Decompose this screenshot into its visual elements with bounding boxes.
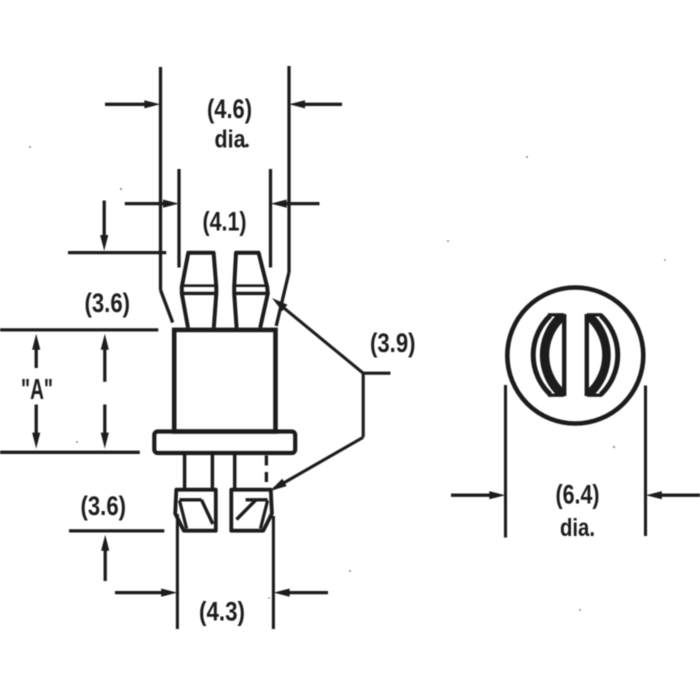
svg-text:(3.6): (3.6)	[85, 288, 131, 318]
bottom barb right chamfer diagonal	[237, 500, 257, 520]
svg-text:(4.1): (4.1)	[203, 207, 247, 237]
extension line right (6.4)	[644, 386, 647, 537]
bottom barb left chamfer diagonal	[202, 500, 213, 524]
top prong right outline	[234, 253, 268, 328]
bottom stem left outer edge	[183, 453, 187, 490]
svg-text:dia: dia	[215, 126, 247, 154]
bottom stem right inner edge	[233, 453, 237, 490]
top view right inner arc	[592, 319, 606, 391]
top view right slot wall	[585, 314, 589, 396]
scan noise speckles	[245, 144, 249, 148]
extension line right (4.1)	[269, 169, 272, 268]
reference line body top extended left	[0, 328, 158, 331]
extension line left (4.1)	[177, 169, 180, 268]
down arrow above flange-bottom line (3.6 bottom)	[103, 405, 106, 437]
top view right crescent top edge	[587, 313, 602, 316]
extension line left (4.6 dia hole)	[159, 67, 162, 290]
reference line bottom of lower barb (3.6 bottom)	[69, 529, 164, 532]
leader 3.9 upper diagonal	[277, 302, 363, 373]
dimension arrow 4.1 left	[125, 202, 168, 205]
reference line top of upper barb (3.6)	[68, 251, 166, 254]
extension line left (6.4)	[504, 385, 507, 538]
bottom barb left face edge	[180, 501, 187, 529]
leader 3.9 lower diagonal	[274, 437, 363, 488]
extension line right (4.3)	[272, 516, 275, 629]
svg-text:"A": "A"	[21, 374, 53, 406]
bottom stem right hidden edge dashed	[265, 456, 268, 490]
svg-text:(3.9): (3.9)	[370, 328, 416, 358]
bottom barb right face edge	[261, 501, 268, 529]
reference line flange bottom extended left	[0, 451, 140, 454]
top view left outer arc	[533, 316, 550, 395]
leader 3.9 horizontal bar	[363, 372, 390, 375]
top prong right barb line lower	[234, 292, 268, 295]
svg-text:dia.: dia.	[560, 514, 595, 542]
bottom stem left inner edge	[211, 453, 215, 490]
extension line left angled lead-in	[161, 290, 173, 323]
top view left inner arc	[545, 319, 559, 391]
top prong right barb line upper	[234, 284, 267, 287]
down arrow above (3.6) top	[103, 201, 106, 240]
svg-text:(4.3): (4.3)	[199, 597, 245, 627]
dimension arrow 6.4 left	[451, 494, 494, 497]
dimension A up arrow	[35, 345, 38, 368]
dimension A down arrow	[35, 405, 38, 437]
top view left crescent bottom edge	[548, 394, 564, 397]
svg-text:(4.6): (4.6)	[207, 94, 252, 124]
dimension arrow 4.1 right	[282, 202, 320, 205]
top view left slot wall	[562, 314, 566, 396]
dimension arrow 4.3 right	[285, 591, 328, 594]
svg-text:(3.6): (3.6)	[81, 491, 127, 521]
extension line left (4.3)	[176, 514, 179, 629]
dimension arrow 6.4 right	[657, 494, 700, 497]
dimension arrow 4.6 right	[300, 103, 342, 106]
top view right crescent bottom edge	[587, 394, 602, 397]
top prong left outline	[182, 253, 217, 328]
top prong left barb line lower	[182, 292, 217, 295]
top prong left barb line upper	[182, 284, 217, 287]
bottom barb right ledge line	[246, 498, 268, 501]
bottom barb left outline	[175, 490, 216, 531]
body cylinder side view	[174, 330, 275, 432]
extension line right angled lead-in	[276, 273, 289, 326]
top view left crescent top edge	[548, 313, 564, 316]
dimension arrow 4.6 left	[105, 103, 150, 106]
dimension arrow 4.3 left	[115, 591, 166, 594]
top view outer circle	[507, 288, 643, 424]
top view right outer arc	[601, 316, 618, 395]
svg-text:(6.4): (6.4)	[556, 480, 600, 510]
flange collar	[154, 432, 295, 454]
bottom barb left ledge line	[180, 498, 202, 501]
leader 3.9 vertical	[362, 373, 365, 437]
up arrow below lower barb line	[104, 546, 107, 581]
extension line right (4.6 dia hole)	[287, 66, 290, 273]
bottom barb right outline	[231, 490, 272, 531]
up arrow below body-top line (3.6)	[103, 345, 106, 382]
